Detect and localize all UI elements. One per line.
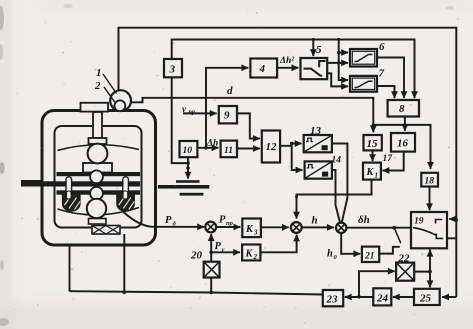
svg-text:22: 22 <box>398 253 411 265</box>
wire: block 5 lower output into 7 <box>327 73 348 86</box>
wire: block 22 output junction vertical <box>414 250 430 287</box>
wire: junction2 output h into junction 3 <box>302 226 334 228</box>
gauge roller 1 <box>110 90 131 111</box>
wire: block 13 output down into junction 3 <box>332 144 348 223</box>
svg-text:h: h <box>312 215 318 227</box>
block 8 <box>388 100 419 117</box>
wire: block 16 into K1 (elbow 17) <box>383 152 404 171</box>
svg-text:24: 24 <box>376 293 389 305</box>
block 6 limiter <box>350 49 377 67</box>
svg-text:9: 9 <box>224 110 230 122</box>
svg-text:6: 6 <box>379 41 385 53</box>
svg-text:18: 18 <box>425 177 435 187</box>
block 25 <box>414 289 440 305</box>
svg-text:12: 12 <box>266 141 278 153</box>
svg-text:8: 8 <box>399 103 405 115</box>
wire: Py branch into K2 <box>211 251 240 253</box>
hydraulic block left (hatched) <box>63 191 81 211</box>
svg-text:Δh: Δh <box>206 139 218 149</box>
svg-text:16: 16 <box>397 138 409 150</box>
svg-text:1: 1 <box>96 67 102 79</box>
wire: block 11 output into 12 <box>237 148 260 150</box>
block 14 pulse element <box>305 161 332 178</box>
wire: junction1 output Ppr into K3 <box>216 226 240 228</box>
svg-text:11: 11 <box>224 146 233 156</box>
block 15 <box>364 135 382 150</box>
wire: block 20 bottom to bus <box>210 278 212 293</box>
block 13 pulse element <box>304 135 332 152</box>
block K3 <box>242 219 261 238</box>
wire: block 4 output into 5 <box>277 67 298 69</box>
housing window top arc <box>58 145 140 151</box>
wire: sensor 10 output dh into 11 <box>197 147 218 149</box>
svg-text:13: 13 <box>310 125 322 137</box>
wire: junction3 down h0 into 21 <box>341 233 360 254</box>
wire: K3 output into junction 2 <box>261 226 289 228</box>
wire: block 8 output distribution <box>373 125 430 169</box>
strip stub left of mill <box>21 180 42 186</box>
svg-text:3: 3 <box>253 229 258 237</box>
screw-down rod <box>89 112 107 144</box>
block 4 <box>250 59 277 78</box>
svg-text:4: 4 <box>259 63 266 75</box>
block 16 <box>391 133 415 152</box>
top backup roll <box>88 144 108 164</box>
summing junction 2 <box>291 222 302 233</box>
svg-text:17: 17 <box>383 154 394 164</box>
svg-text:20: 20 <box>190 250 203 262</box>
load cell box with cross <box>92 226 120 235</box>
block 19 relay switch <box>411 212 447 248</box>
svg-text:К: К <box>245 224 254 235</box>
svg-text:3: 3 <box>169 64 176 76</box>
wire: block 9 output into 12 <box>237 113 260 138</box>
gauge bar <box>81 103 109 112</box>
svg-text:21: 21 <box>364 252 375 262</box>
block 24 <box>373 288 391 305</box>
svg-text:19: 19 <box>414 217 424 227</box>
wire: mill screw left riser <box>69 246 71 292</box>
wire: right bus into block 19 right <box>449 218 456 220</box>
svg-text:δh: δh <box>358 214 370 226</box>
strip / pass line through mill <box>21 181 140 186</box>
wire: gauge d-line staircase into block 15 <box>131 98 374 132</box>
wire: 25 output into 24 <box>393 296 414 298</box>
pressure rod slot right <box>123 177 129 198</box>
wire: 23 output feedback bus to mill <box>70 291 323 294</box>
leader line label 2 <box>104 87 115 102</box>
block 3 <box>164 59 182 77</box>
housing window bottom arc <box>58 208 140 215</box>
svg-text:P: P <box>219 215 226 226</box>
block 5 relay element <box>301 58 328 79</box>
wire: block 12 output split to 13 and 14 <box>280 144 302 171</box>
wire: dh riser into block 4 <box>206 68 248 148</box>
top work roll chock <box>83 163 112 173</box>
svg-text:пр: пр <box>189 110 195 116</box>
wire: line2 drop into block 5 top <box>312 40 314 57</box>
top work roll <box>90 170 103 183</box>
wire: block 5 upper output into 6 <box>327 62 348 64</box>
arrow down into 25 top <box>429 282 431 287</box>
wire: gauge up and top bus (line1) to right bus <box>119 28 457 297</box>
block 10 <box>180 141 198 157</box>
bottom chock <box>89 219 107 225</box>
svg-text:К: К <box>245 249 254 260</box>
svg-text:7: 7 <box>379 68 385 80</box>
block 23 <box>323 290 343 306</box>
wire: mill screw right riser <box>123 234 125 292</box>
lower chock beam <box>57 190 141 194</box>
svg-text:15: 15 <box>367 138 379 150</box>
svg-text:1: 1 <box>375 172 379 180</box>
svg-text:P: P <box>165 215 172 226</box>
svg-text:Δh²: Δh² <box>279 56 295 66</box>
svg-text:2: 2 <box>253 253 258 261</box>
bottom work roll <box>90 187 103 200</box>
wire: block 19 right lower stub to bus <box>447 237 456 239</box>
block 7 limiter <box>350 76 377 92</box>
hydraulic block right (hatched) <box>117 191 135 211</box>
svg-text:у: у <box>221 247 225 254</box>
wire: sensor 10 to block 3 riser <box>172 77 188 163</box>
block 18 <box>421 173 438 187</box>
wire: 24 output into 23 <box>345 296 374 298</box>
block 11 <box>221 141 237 158</box>
wire: block 6 output into 8 <box>377 58 404 99</box>
wire: block 7 output into 8 <box>377 86 395 98</box>
upper chock beam <box>57 172 141 176</box>
svg-text:d: d <box>227 85 233 97</box>
wire: line2 drop to 6/7 inputs <box>339 40 348 53</box>
summing junction 1 <box>205 222 216 233</box>
pressure rod slot left <box>66 177 72 198</box>
wire: block 14 output down into junction 3 <box>332 170 340 223</box>
wire: sensor 10 down to datum <box>187 157 189 178</box>
wire: junction3 output dh into 19 <box>346 227 410 229</box>
wire: Pd from mill into junction 1 <box>123 212 204 227</box>
svg-text:14: 14 <box>332 156 342 166</box>
block 21 <box>362 247 379 262</box>
wire: block 15 into K1 <box>372 150 374 161</box>
wire: block 8 down into 16 <box>404 117 406 131</box>
mill housing <box>42 111 156 246</box>
svg-text:h: h <box>327 249 333 260</box>
wire: right bus into block 25 right <box>442 296 456 298</box>
svg-text:2: 2 <box>94 80 101 92</box>
svg-text:10: 10 <box>183 146 193 156</box>
wire: K1 output into junction 2 top <box>297 180 372 219</box>
block 20 multiplier <box>204 262 220 278</box>
svg-text:P: P <box>215 241 222 252</box>
svg-text:25: 25 <box>419 293 432 305</box>
bottom backup roll <box>87 199 106 218</box>
block K2 <box>242 245 260 261</box>
summing junction 3 <box>336 223 346 233</box>
svg-text:К: К <box>366 167 375 178</box>
svg-text:5: 5 <box>316 44 322 56</box>
wire: block 20 up into junction 1 <box>210 234 212 261</box>
block 9 <box>219 106 237 123</box>
gauge contact roller 2 <box>115 100 126 111</box>
wire: block 3 up to line2 into block 8 <box>172 40 415 99</box>
wire: feedback branch into 22 <box>359 271 395 297</box>
wire: vertical 6-7 link <box>339 53 348 81</box>
block 12 <box>262 131 280 163</box>
block K1 <box>363 163 381 180</box>
wire: Vpr input into 9 <box>183 112 217 114</box>
arrow up into 19 bottom <box>429 250 431 255</box>
wire: block 21 output to switch contact <box>379 247 400 254</box>
svg-text:23: 23 <box>326 294 339 306</box>
block 22 multiplier <box>396 263 414 281</box>
wire: switch arm on dh line <box>394 228 401 244</box>
wire: block 18 into 19 <box>429 187 431 211</box>
wire: K2 output into junction 2 bottom <box>260 235 296 253</box>
svg-text:пр: пр <box>226 220 234 227</box>
leader line label 1 <box>103 74 117 94</box>
